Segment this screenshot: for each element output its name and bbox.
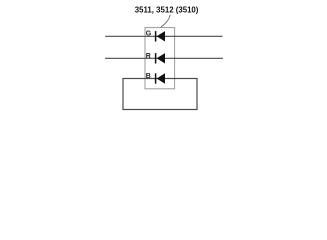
wire B net loop [123, 79, 197, 110]
wire R net [105, 57, 223, 59]
svg-text:R: R [146, 53, 151, 60]
wire G net [105, 35, 222, 37]
svg-text:G: G [146, 31, 152, 38]
LED B triangle [157, 73, 165, 83]
svg-text:B: B [146, 73, 151, 80]
svg-text:3511, 3512 (3510): 3511, 3512 (3510) [135, 5, 199, 15]
LED G cathode bar [155, 31, 157, 41]
LED G triangle [157, 31, 165, 41]
LED R cathode bar [155, 53, 157, 63]
LED module box U3510 [145, 28, 175, 89]
leader line [160, 15, 170, 28]
LED R triangle [157, 53, 165, 63]
LED B cathode bar [155, 73, 157, 83]
